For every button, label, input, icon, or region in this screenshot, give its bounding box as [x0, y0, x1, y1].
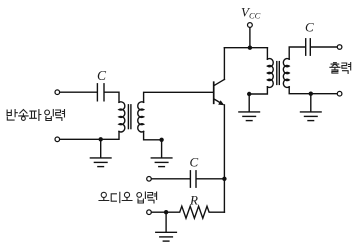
junction: Vcc tap [248, 46, 252, 50]
junction: C2 / emitter line [222, 177, 226, 181]
wire: T1 primary bottom to carrier bottom terminal [60, 132, 119, 140]
T1 core [128, 105, 131, 129]
glyph 파 [30, 110, 41, 121]
glyph 력 [342, 63, 351, 74]
label: 오디오 입력 (audio input) [99, 192, 157, 203]
wire: T2 secondary bottom to output bottom terminal [289, 87, 337, 94]
glyph 디 [111, 192, 120, 202]
wire: C3 to output top terminal [311, 46, 337, 48]
svg-text:R: R [189, 193, 198, 208]
glyph 출 [330, 63, 340, 73]
junction: carrier bottom / ground [99, 137, 103, 141]
glyph 력 [56, 110, 65, 121]
ground 5 [156, 232, 177, 241]
ground 1 [90, 158, 111, 167]
ground 4 [301, 112, 322, 121]
junction: output bottom / ground 4 [309, 92, 313, 96]
carrier input bottom terminal [55, 137, 60, 142]
junction: T2 primary / ground 3 [247, 92, 251, 96]
wire: Vcc rail to T2 primary top [266, 48, 268, 60]
wire: carrier top terminal to C1 [60, 91, 97, 93]
junction: audio bottom / ground 5 [164, 210, 168, 214]
wire: T1 secondary bottom to junction [144, 132, 162, 140]
transistor Q1 [214, 79, 225, 105]
wire: audio bottom terminal to junction [152, 211, 167, 213]
wire: C2 to emitter line junction [197, 178, 225, 180]
carrier input top terminal [55, 90, 60, 95]
svg-text:C: C [97, 68, 107, 83]
wire: Vcc terminal stem [249, 28, 251, 48]
capacitor C2 [190, 171, 196, 187]
wire: C1 to T1 primary top [105, 92, 119, 102]
Vcc rail wire [224, 47, 267, 49]
audio input top terminal [147, 177, 152, 182]
wire: junction to ground 1 [100, 139, 102, 157]
resistor R [166, 206, 224, 218]
glyph 오 [122, 192, 132, 200]
wire: collector up to Vcc rail [223, 48, 225, 80]
wire: T2 secondary top to C3 [289, 47, 305, 59]
label: 반송파 입력 (carrier input) [7, 110, 64, 121]
svg-text:VCC: VCC [241, 5, 261, 21]
glyph 입 [45, 110, 54, 121]
wire: T2 primary bottom to junction [249, 87, 267, 94]
T2 core [277, 62, 280, 85]
wire: audio top terminal to C2 [152, 178, 190, 180]
glyph 송 [19, 110, 28, 121]
wire: junction to ground 3 [248, 94, 250, 112]
glyph 입 [137, 192, 146, 203]
transformer T2 primary winding [267, 59, 273, 88]
transformer T2 secondary winding [283, 59, 289, 88]
output top terminal [337, 45, 342, 50]
glyph 반 [7, 110, 17, 121]
wire: emitter down to R corner [223, 105, 225, 212]
wire: junction to ground 5 [165, 212, 167, 232]
wire: junction to ground 2 [161, 140, 163, 158]
junction: T1 secondary / ground 2 [159, 138, 163, 142]
glyph 오 [99, 192, 109, 200]
capacitor C1 [97, 84, 104, 101]
label: 출력 (output) [330, 63, 351, 74]
transformer T1 secondary winding [138, 102, 144, 132]
transformer T1 primary winding [119, 102, 125, 132]
ground 2 [151, 158, 172, 167]
capacitor C3 [306, 39, 311, 55]
svg-text:C: C [305, 20, 314, 35]
ground 3 [239, 112, 260, 121]
audio input bottom terminal [147, 210, 152, 215]
glyph 력 [148, 192, 157, 203]
wire: junction to ground 4 [310, 94, 312, 112]
wire: T1 secondary top to transistor base [144, 92, 213, 102]
Vcc terminal [248, 23, 253, 28]
svg-text:C: C [190, 155, 199, 170]
output bottom terminal [337, 91, 342, 96]
